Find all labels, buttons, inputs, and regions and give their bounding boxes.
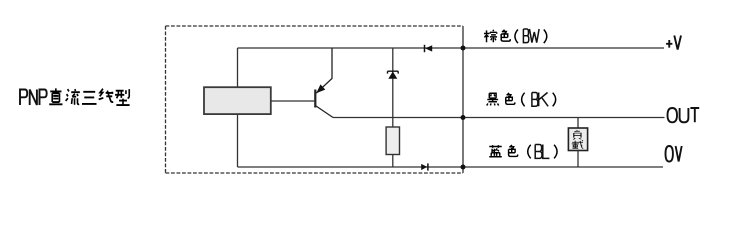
wire: left rail lower <box>237 114 239 167</box>
wire: base lead <box>271 100 315 102</box>
wire: load upper lead <box>577 118 579 129</box>
emitter arrowhead <box>316 84 325 93</box>
node: 0V junction <box>461 165 466 170</box>
wire: OUT line <box>333 117 665 119</box>
label: PNP直流三线型 (title) <box>20 88 130 105</box>
label: +V terminal <box>666 36 681 50</box>
wire: resistor lower lead <box>392 155 394 168</box>
sensor block (main circuit) <box>204 87 271 114</box>
transistor Q1 (PNP) <box>271 48 333 118</box>
node: OUT junction <box>461 115 466 120</box>
label: 蓝色（BL） blue wire <box>489 145 557 159</box>
zener cathode bar <box>388 71 399 73</box>
wire: right-edge vertical bus <box>462 26 464 173</box>
label: OUT terminal <box>668 108 700 122</box>
wire: +V rail (top) <box>238 47 665 49</box>
wire: left rail upper <box>237 48 239 87</box>
resistor R1 <box>386 127 399 155</box>
label: PNP (title latin) <box>20 90 47 106</box>
wire: 0V rail (bottom) <box>238 166 664 168</box>
load box RL <box>568 128 587 151</box>
diode D2 (series, +V rail) <box>425 45 433 52</box>
zener triangle <box>388 72 397 79</box>
label: 负载 (load) <box>572 131 584 149</box>
label: BL letters <box>535 145 549 159</box>
diode D3 (series, 0V rail) <box>421 163 428 170</box>
label: BW letters <box>523 29 539 43</box>
node: +V junction <box>461 46 466 51</box>
wire: emitter branch <box>316 48 332 93</box>
base bar <box>314 90 316 108</box>
dashed enclosure (sensor outline) <box>166 26 464 173</box>
wire: load lower lead <box>577 150 579 168</box>
label: 黑色（BK） black wire <box>487 93 556 107</box>
label: 棕色（BW） brown wire <box>484 29 547 43</box>
label: 0V terminal <box>666 146 682 162</box>
label: BK letters <box>532 93 548 107</box>
diode D1 (zener, vertical branch) <box>388 48 399 127</box>
wire: zener branch upper <box>392 48 394 127</box>
load branch <box>568 118 587 168</box>
wire: collector lead <box>315 106 333 118</box>
